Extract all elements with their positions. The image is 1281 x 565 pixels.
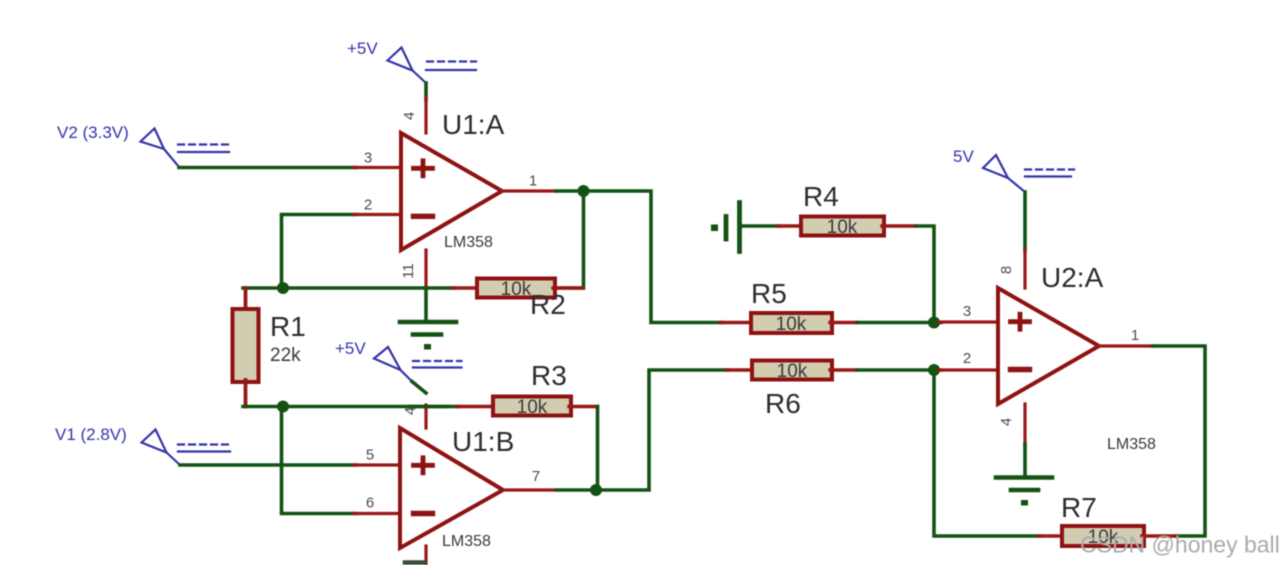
resistor R2 [452,286,479,289]
pin stub 5 [354,463,400,466]
svg-text:8: 8 [998,266,1015,274]
wire R1 top node horizontal [243,286,454,290]
node U1:A out junction [578,185,590,197]
svg-text:1: 1 [1131,327,1139,344]
svg-text:3: 3 [364,150,372,167]
ground G3 [996,478,1052,491]
svg-text:2: 2 [963,350,971,367]
svg-text:LM358: LM358 [1107,436,1156,453]
svg-text:10k: 10k [827,217,858,238]
pin stub 8 U1:B bottom [424,546,427,565]
svg-text:LM358: LM358 [442,533,491,550]
svg-text:10k: 10k [501,279,532,300]
wire R1 bottom horizontal [243,405,459,409]
resistor R5 [720,321,753,324]
wire V1 to U1:B pin5 [180,463,356,467]
svg-text:5: 5 [366,447,374,464]
ground G2 rotated [726,203,740,252]
pin stub 2 U2 [939,368,998,371]
svg-text:U1:A: U1:A [442,109,505,140]
resistor R4 [778,224,803,227]
wire pin2 node down to R7 [934,370,1040,536]
svg-text:+5V: +5V [347,39,378,58]
pin stub 1 U2 out [1099,344,1153,347]
svg-text:R2: R2 [530,289,566,320]
wire +5V to U1:B pin4 diagonal [412,382,426,394]
terminal +5V (U1:B) symbol [374,347,462,383]
svg-text:10k: 10k [777,361,808,382]
pin stub 7 U1:B out [503,488,557,491]
pin stub 4 U1:B [424,405,427,428]
pin stub 1 U1:A out [502,189,556,192]
wire R1 bottom node to U1:B pin6 [282,407,357,514]
pin stub 8 U2 [1023,249,1026,288]
wire R4 right down to pin3 node [916,226,934,323]
terminal V2 symbol [141,129,230,168]
wire junction down to R2 right [557,191,584,288]
node pin2 junction [928,364,940,376]
pin stub 3 U1:A [354,166,401,169]
svg-text:1: 1 [529,173,537,190]
svg-text:7: 7 [532,468,540,485]
node U1:B out junction [590,484,602,496]
pin stub 6 [354,512,400,515]
svg-text:R7: R7 [1061,492,1097,523]
wire R5 right to pin3 node [857,321,941,325]
wire ground stem [424,288,428,321]
pin stub 11 U1:A [424,250,427,287]
wire 5V to U2 pin8 [1023,192,1027,251]
pin stub 4 U2 [1023,404,1026,446]
resistor R1 [244,288,248,311]
wire crossing patch over pin4 [410,405,448,409]
svg-text:2: 2 [364,197,372,214]
wire R6 right to pin2 node [857,368,941,372]
svg-text:4: 4 [998,418,1015,426]
svg-text:22k: 22k [270,345,301,366]
resistor R3 [457,405,495,408]
op-amp U1:A [401,133,502,250]
svg-text:CSDN @honey ball: CSDN @honey ball [1080,532,1280,558]
wire pin4 to ground [1023,444,1027,476]
svg-text:R1: R1 [270,311,306,342]
terminal +5V (U1:A) symbol [388,48,477,84]
svg-text:U2:A: U2:A [1041,262,1104,293]
svg-text:+5V: +5V [335,339,366,358]
node R1 bottom junction [277,401,289,413]
svg-text:11: 11 [400,263,417,279]
svg-text:10k: 10k [517,397,548,418]
wire U2 out to R7 loop [1153,346,1205,536]
wire V2 to U1:A pin3 [179,166,356,170]
op-amp U1:B [400,428,503,548]
wire U1:A pin2 to R1 top node [282,215,357,289]
wire ground to R4 [740,224,781,228]
svg-text:LM358: LM358 [444,234,493,251]
node pin3 junction [928,317,940,329]
svg-text:3: 3 [963,303,971,320]
pin stub 2 U1:A [354,213,401,216]
svg-text:U1:B: U1:B [452,426,514,457]
wire U1:A out to R5 [556,191,722,323]
svg-text:R6: R6 [765,388,801,419]
terminal 5V symbol [983,155,1074,192]
svg-text:4: 4 [401,112,418,120]
resistor R7 [1038,534,1064,537]
op-amp U2:A [998,288,1099,404]
wire junction to R6 [596,370,728,490]
svg-text:R5: R5 [751,278,787,309]
svg-text:6: 6 [366,495,374,512]
svg-text:10k: 10k [776,314,807,335]
pin stub 3 U2 [939,320,998,323]
ground stub bottom clipped [405,560,424,565]
wire R3 right down to out junction [596,407,600,491]
svg-text:V2 (3.3V): V2 (3.3V) [57,123,129,142]
ground G1 [400,322,456,335]
wire U1:B out to junction [557,488,598,492]
pin stub 4 U1:A [424,98,427,133]
resistor R6 [726,368,754,371]
svg-text:5V: 5V [953,147,974,166]
svg-text:R3: R3 [531,360,567,391]
svg-text:V1 (2.8V): V1 (2.8V) [55,425,127,444]
node R1 top junction [277,282,289,294]
svg-text:R4: R4 [803,181,839,212]
terminal V1 symbol [142,430,231,466]
wire +5V to U1:A pin4 [424,83,428,100]
